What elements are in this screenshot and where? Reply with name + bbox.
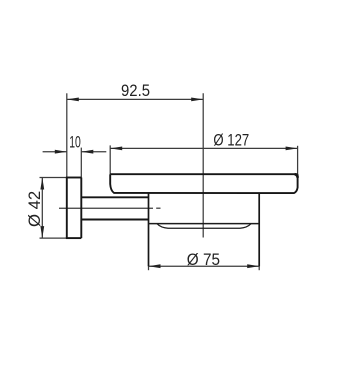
svg-text:Ø 75: Ø 75 (187, 251, 220, 269)
svg-text:Ø 42: Ø 42 (26, 191, 44, 227)
svg-text:Ø 127: Ø 127 (213, 132, 249, 150)
svg-text:92.5: 92.5 (121, 82, 150, 100)
svg-text:10: 10 (69, 134, 81, 152)
